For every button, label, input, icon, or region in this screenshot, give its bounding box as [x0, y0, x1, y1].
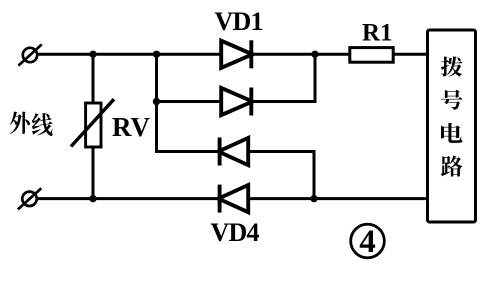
svg-text:RV: RV	[112, 112, 151, 142]
wire bottom rail left	[37, 197, 220, 200]
wire row2 right + up to top rail	[251, 54, 315, 101]
figure number ④	[351, 224, 385, 260]
diode VD3	[218, 138, 248, 165]
wire top rail: R1 to box	[393, 53, 427, 56]
label 外线	[10, 111, 53, 135]
diode VD2	[221, 88, 252, 115]
node RV-top junction dot	[89, 51, 96, 58]
wire row2 left	[157, 100, 222, 103]
terminal bottom-left (line input)	[18, 188, 41, 209]
wire row3 left + down from left bus	[157, 150, 220, 153]
node right-bus bottom junction dot	[310, 195, 317, 202]
node right-bus top junction dot	[311, 51, 318, 58]
node left-bus row2 junction dot	[153, 98, 160, 105]
svg-text:VD4: VD4	[211, 218, 260, 247]
svg-text:4: 4	[359, 224, 376, 260]
wire top rail left	[37, 53, 221, 56]
wire left bus	[155, 54, 158, 153]
svg-text:VD1: VD1	[215, 7, 263, 36]
wire bottom rail right	[248, 197, 427, 200]
wire row3 right + down to bottom rail	[248, 152, 314, 199]
diode VD1	[221, 41, 252, 68]
node left-bus top junction dot	[153, 51, 160, 58]
wire top rail: VD1 cathode to R1	[251, 53, 349, 56]
varistor RV	[71, 99, 114, 147]
resistor R1	[350, 48, 393, 63]
svg-text:R1: R1	[362, 20, 393, 47]
node RV-bottom junction dot	[89, 195, 96, 202]
terminal top-left (line input)	[18, 44, 41, 65]
wire RV branch lower	[92, 146, 95, 199]
diode VD4	[218, 185, 248, 212]
wire RV branch upper	[92, 54, 95, 104]
dialing-circuit box 拨号电路	[428, 30, 476, 222]
